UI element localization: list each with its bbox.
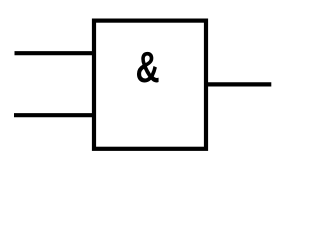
AND gate U1 body [94,21,206,149]
wire input A [15,51,95,55]
wire output Y [206,82,271,86]
wire input B [14,113,94,117]
svg-text:&: & [136,44,160,92]
